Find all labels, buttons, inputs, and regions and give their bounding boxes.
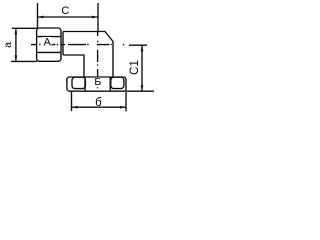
nut A upper flat line	[37, 36, 61, 38]
nut B chamfer curve left flat	[72, 77, 85, 88]
dimension C1 line	[141, 45, 143, 91]
svg-text:A: A	[44, 37, 52, 49]
svg-text:Б: Б	[94, 76, 101, 88]
arrow b left	[72, 106, 78, 109]
body top edge	[63, 32, 113, 78]
svg-text:C: C	[61, 5, 69, 17]
nut B hex edge right	[109, 77, 111, 91]
body bottom edge	[63, 55, 84, 77]
dimension a extension line bottom	[11, 60, 37, 62]
dimension b extension line left	[71, 91, 73, 111]
svg-text:б: б	[95, 97, 102, 109]
label A	[43, 37, 52, 49]
arrow C1 top	[141, 45, 144, 51]
arrow C1 bottom	[141, 85, 144, 91]
nut A outline	[37, 28, 61, 61]
nut B hex edge left	[84, 77, 86, 91]
dimension C extension line left	[37, 3, 39, 28]
body face line	[62, 32, 64, 56]
vertical centerline	[97, 32, 99, 89]
nut B outline	[67, 77, 126, 91]
dimension a extension line top	[12, 27, 37, 29]
dimension C1 extension line top	[129, 44, 147, 46]
arrow C left	[38, 16, 44, 19]
dimension C extension line right	[97, 3, 99, 32]
svg-text:a: a	[2, 42, 14, 48]
dimension a line	[15, 28, 17, 61]
nut B chamfer curve right flat	[111, 77, 124, 88]
horizontal centerline	[31, 44, 124, 46]
dimension b line	[72, 106, 127, 108]
dimension b extension line right	[125, 91, 127, 111]
arrow C right	[92, 16, 98, 19]
arrow a top	[15, 28, 18, 34]
label B (Cyrillic)	[94, 76, 102, 88]
arrowheads	[15, 16, 144, 109]
svg-text:C1: C1	[129, 60, 141, 75]
dimension C line	[38, 16, 99, 18]
dimension C1 extension line bottom	[126, 90, 154, 92]
arrow b right	[120, 106, 126, 109]
nut A lower flat line	[37, 51, 61, 53]
arrow a bottom	[15, 55, 18, 61]
